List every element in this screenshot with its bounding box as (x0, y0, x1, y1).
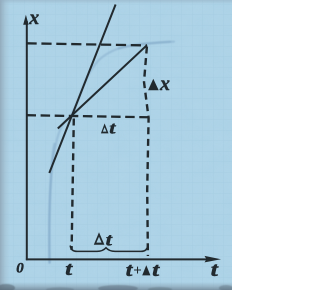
svg-text:t: t (211, 259, 219, 281)
svg-text:t: t (65, 258, 73, 280)
tangent line (49, 5, 115, 174)
dashed horizontal middle (level x(t)) (27, 115, 151, 117)
bottom edge mottling (0, 284, 233, 290)
curly brace under dt (70, 246, 148, 252)
svg-text:+: + (133, 263, 142, 279)
svg-text:t: t (109, 120, 116, 138)
paper background (0, 0, 232, 290)
t axis arrowhead (205, 256, 222, 263)
label dx (148, 79, 159, 90)
svg-text:x: x (28, 7, 39, 29)
svg-text:x: x (159, 73, 170, 95)
dashed vertical left (t) (72, 119, 74, 251)
curve x(t) (49, 42, 174, 263)
label dt (bottom) (94, 232, 105, 245)
label dt (middle) (101, 123, 109, 133)
paper edge shading (0, 0, 10, 290)
svg-text:0: 0 (16, 261, 24, 277)
vertical x axis (26, 21, 28, 260)
x axis arrowhead (23, 15, 28, 25)
dashed vertical right (t+dt) (144, 47, 149, 257)
dashed horizontal top (level x(t+dt)) (27, 43, 148, 45)
horizontal t axis (26, 258, 208, 260)
svg-text:t: t (152, 259, 160, 281)
secant line (58, 45, 147, 128)
